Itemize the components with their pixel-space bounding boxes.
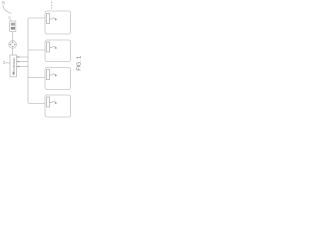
svg-text:FIG. 1: FIG. 1 [77,56,81,71]
svg-text:14: 14 [2,61,6,65]
svg-text:10: 10 [1,1,5,5]
svg-text:12: 12 [7,16,11,20]
svg-text:CONTROLLER: CONTROLLER [12,57,16,71]
